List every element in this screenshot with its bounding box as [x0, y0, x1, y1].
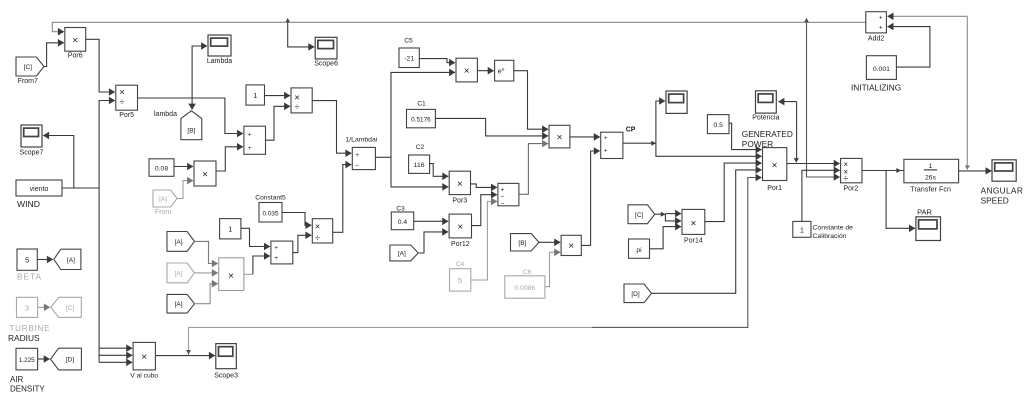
svg-text:Calibración: Calibración	[813, 233, 847, 240]
svg-text:+: +	[604, 135, 608, 142]
wire: Por14 out to Por1 input 3	[705, 163, 762, 222]
product Por1	[763, 148, 787, 192]
wire: pi to Por14 input 3	[650, 227, 682, 249]
junction arrow on Por1 output (Potencia branch)	[794, 158, 799, 163]
svg-text:Por14: Por14	[684, 238, 703, 245]
math function e^u	[495, 60, 514, 81]
svg-text:Lambda: Lambda	[207, 58, 232, 65]
svg-text:÷: ÷	[843, 174, 848, 184]
svg-text:C3: C3	[396, 206, 405, 213]
sum bracket (C2/Li - C3b - C4)	[498, 183, 519, 207]
svg-text:Potencia: Potencia	[752, 115, 779, 122]
svg-text:×: ×	[457, 222, 463, 233]
wire: omega feedback to Add2 input 1	[888, 15, 968, 17]
divide (1/(lambda+0.08b))	[291, 88, 312, 113]
constant 0.5176 (C1)	[407, 109, 436, 127]
svg-text:26s: 26s	[925, 175, 937, 182]
svg-text:Constant5: Constant5	[255, 195, 286, 202]
svg-text:÷: ÷	[295, 102, 300, 112]
svg-text:[A]: [A]	[398, 250, 406, 257]
wire: Por5 output to sum lambda input 1	[138, 98, 243, 134]
svg-text:AIR: AIR	[10, 375, 24, 384]
junction arrow [C] branch	[661, 212, 666, 217]
product lambda*C6	[561, 235, 581, 255]
scope PAR	[916, 217, 941, 241]
goto tag [D] (air density)	[51, 348, 82, 370]
svg-text:0.08: 0.08	[155, 166, 168, 173]
wire: 1.225 to goto [D]	[38, 358, 50, 360]
wire: Por6 output to Por5 input 1	[86, 39, 115, 92]
constant viento	[16, 180, 62, 196]
junction arrow on Scope3 wire (v cubed branch)	[186, 350, 191, 355]
svg-text:Add2: Add2	[868, 36, 884, 43]
wire: [C] to Por14 input 1	[665, 213, 681, 215]
goto tag [A] (beta)	[54, 249, 81, 269]
svg-text:PAR: PAR	[917, 208, 932, 217]
scope Potencia (flipped)	[752, 91, 779, 122]
constant 1.225 (air density)	[16, 348, 38, 370]
svg-text:×: ×	[568, 241, 574, 252]
wire: CP branch up to scope	[656, 101, 665, 143]
svg-text:[A]: [A]	[175, 301, 183, 308]
svg-text:viento: viento	[30, 186, 49, 193]
constant 5 (C4, grey)	[450, 269, 471, 291]
constant 3 (radius, grey)	[17, 297, 38, 317]
wire: product out to sum input 2	[216, 147, 243, 171]
svg-text:Por6: Por6	[68, 53, 83, 60]
svg-text:1: 1	[929, 163, 933, 170]
svg-text:÷: ÷	[120, 97, 125, 107]
wire: Por2 out	[862, 170, 904, 172]
junction arrow omega feedback	[965, 165, 970, 170]
wire: C3 to Por12 input 1	[414, 220, 448, 222]
svg-text:−: −	[501, 200, 505, 207]
scope Scope3	[214, 344, 238, 380]
svg-text:1.225: 1.225	[19, 357, 35, 364]
wire: bus branch down to Scope6	[288, 22, 315, 47]
wire: Add2 drop to Por2 divide input	[807, 22, 840, 177]
sum (1 + beta^3)	[271, 241, 293, 264]
wire: Por3 out to bracket sum input 1	[471, 184, 497, 188]
from tag [A] grey (near 0.08)	[153, 190, 177, 216]
svg-text:0.001: 0.001	[873, 66, 890, 73]
wire: Potencia branch vertical	[796, 102, 798, 159]
svg-text:pi: pi	[636, 247, 642, 254]
svg-text:RADIUS: RADIUS	[8, 333, 40, 343]
sum 1/Lambdai	[352, 147, 375, 169]
constant 0.035	[259, 203, 282, 223]
svg-text:×: ×	[72, 36, 78, 47]
wire: 0.5 to Por1 input 1	[729, 123, 762, 149]
svg-text:3: 3	[25, 304, 29, 313]
wire: CP to Por1 input 2	[656, 143, 762, 156]
wire: v cubed bus to Por1 input 5	[592, 178, 762, 328]
svg-text:Por3: Por3	[452, 198, 467, 205]
svg-text:WIND: WIND	[17, 199, 40, 209]
svg-text:CP: CP	[626, 127, 636, 134]
product Por12	[449, 214, 471, 248]
product Cp terms	[549, 125, 570, 148]
product Por2 (x x /)	[841, 158, 862, 192]
wire: 1 to sum (1+b3) input 1	[241, 228, 270, 246]
svg-text:From: From	[155, 209, 172, 216]
constant 116 (C2)	[409, 155, 430, 173]
svg-text:C5: C5	[404, 38, 413, 45]
svg-text:[D]: [D]	[631, 291, 640, 298]
svg-text:Por12: Por12	[451, 241, 470, 248]
svg-text:Scope7: Scope7	[20, 150, 44, 157]
wire: divide out to 1/Lambdai sum + input	[312, 101, 351, 154]
svg-text:Transfer Fcn: Transfer Fcn	[910, 187, 951, 194]
wire: sum out to divide input 2	[266, 106, 291, 140]
goto tag [B] (lambda)	[181, 111, 202, 140]
constant -21 (C5)	[399, 48, 419, 68]
wire: 0.08 to product	[174, 166, 193, 168]
svg-text:5: 5	[458, 276, 462, 285]
wire: e^u out to Cp product input 1	[514, 71, 548, 130]
svg-text:+: +	[248, 145, 252, 152]
svg-text:Scope6: Scope6	[314, 61, 338, 68]
wire: viento bus up to Por5 input 2	[99, 101, 115, 189]
constant 0.001	[866, 56, 896, 80]
wire: bus to V al cubo input 1	[99, 347, 132, 349]
arrow into Angular Speed scope	[986, 167, 993, 174]
scope Scope7 (flipped)	[20, 125, 44, 157]
wire: [A]3 to beta-cube product input 3	[195, 284, 218, 304]
svg-text:+: +	[879, 14, 883, 21]
svg-text:÷: ÷	[315, 233, 320, 243]
junction tick at Por2 branch on bus	[804, 18, 809, 22]
product (0.08*beta)	[194, 161, 216, 186]
from tag [C] #2	[628, 205, 655, 224]
wire: [C] branch to Por14 input 2	[665, 214, 681, 221]
divide Por5	[116, 85, 138, 119]
wire: sum (1+b3) to divide2 bottom input	[293, 235, 312, 252]
svg-text:[C]: [C]	[66, 305, 75, 312]
constant 5 (beta)	[17, 249, 37, 270]
svg-text:[C]: [C]	[635, 212, 644, 219]
svg-text:[A]: [A]	[159, 196, 167, 203]
constant 1 (lower)	[220, 219, 241, 239]
constant 1 (Constante de Calibracion)	[793, 221, 811, 237]
wire: divide2 out to 1/Lambdai minus input	[333, 165, 352, 233]
svg-text:Constante de: Constante de	[813, 225, 854, 232]
wire: 1 to Por2 input 2	[802, 170, 840, 221]
svg-text:116: 116	[414, 162, 425, 169]
svg-text:+: +	[274, 244, 278, 251]
svg-text:×: ×	[141, 352, 147, 363]
constant 0.0086 (C6, grey)	[505, 276, 545, 298]
svg-text:0.5176: 0.5176	[411, 116, 431, 123]
constant pi	[629, 239, 650, 258]
wire: lambda-C6 out to CP sum input 2	[581, 151, 599, 245]
wire: branch to Potencia scope (flipped input)	[779, 101, 797, 103]
svg-text:ANGULAR: ANGULAR	[981, 186, 1024, 196]
svg-text:+: +	[274, 255, 278, 262]
product Por6	[65, 28, 86, 60]
svg-text:×: ×	[202, 170, 208, 181]
svg-text:×: ×	[464, 66, 470, 77]
wire: beta-cube out to sum (1+b3) input 2	[253, 256, 270, 274]
svg-text:×: ×	[772, 161, 778, 172]
wire: lambda branch to Lambda scope	[192, 46, 207, 98]
svg-text:Por5: Por5	[119, 112, 134, 119]
wire: From7 to Por6 input 2	[44, 43, 64, 67]
svg-text:Por2: Por2	[844, 186, 859, 193]
wire: -21 to product	[419, 59, 455, 63]
svg-text:C4: C4	[456, 261, 465, 268]
svg-text:+: +	[879, 25, 883, 32]
svg-text:From7: From7	[18, 78, 38, 85]
svg-text:GENERATED: GENERATED	[742, 129, 793, 139]
constant 1 (upper)	[246, 85, 265, 105]
from tag [A] #1	[167, 232, 195, 252]
svg-text:DENSITY: DENSITY	[10, 385, 45, 394]
wire: 1/Lambdai down to Por3 input 2	[391, 157, 448, 187]
wire: C6 to lambda-C6 product input 2 (grey)	[545, 252, 560, 286]
svg-text:1: 1	[253, 91, 257, 100]
svg-text:+: +	[248, 132, 252, 139]
svg-text:[D]: [D]	[66, 357, 75, 364]
svg-text:C6: C6	[523, 269, 532, 276]
svg-text:×: ×	[228, 271, 234, 282]
from tag [A] #3	[167, 294, 195, 313]
svg-text:-21: -21	[404, 56, 414, 63]
svg-text:×: ×	[457, 179, 463, 190]
divide (0.035/(1+b^3))	[312, 219, 332, 244]
sum (lambda + 0.08*beta)	[244, 126, 266, 154]
wire: Por12 out to bracket sum input 2	[472, 195, 497, 226]
wire: [B] to lambda-C6 product input 1	[539, 241, 560, 243]
wire: beta-cube out (grey segment)	[244, 273, 253, 275]
svg-text:+: +	[501, 187, 505, 194]
svg-text:lambda: lambda	[154, 111, 177, 118]
transfer function Transfer Fcn 1/26s	[904, 159, 959, 193]
wire: bus to V al cubo input 3	[99, 361, 132, 363]
wire: 1 to divide input 1	[265, 95, 291, 97]
from tag [D]	[624, 284, 652, 303]
scope Lambda	[207, 35, 232, 65]
wire: C1 to Cp product input 2	[435, 118, 548, 135]
wire: [A]4 to Por12 input 2	[418, 232, 448, 253]
scope Scope6	[314, 37, 338, 67]
product Por3	[449, 171, 470, 204]
svg-text:0.5: 0.5	[713, 122, 723, 129]
wire: v cubed long bus (grey part)	[189, 327, 593, 355]
svg-text:[B]: [B]	[187, 128, 195, 135]
sum CP	[601, 132, 623, 158]
scope (CP, unnamed)	[666, 91, 687, 113]
wire: V al cubo output to Scope3	[155, 355, 214, 357]
product Por14	[682, 209, 705, 244]
scope Angular Speed	[992, 160, 1016, 181]
product V al cubo	[130, 342, 158, 379]
svg-text:0.0086: 0.0086	[514, 285, 535, 292]
wire: CP sum out	[623, 142, 656, 144]
wire: viento output to bus junction	[62, 187, 99, 189]
wire: 0.001 to Add2 input 2	[888, 27, 930, 68]
svg-text:Por1: Por1	[767, 185, 782, 192]
wire: Add2 output feedback bus to Por6 input 1	[52, 22, 866, 31]
goto tag [C] (radius, grey)	[51, 297, 82, 317]
wire: 1/Lambdai up to C5 product	[391, 72, 455, 157]
svg-text:[A]: [A]	[175, 239, 183, 246]
wire: viento branch to Scope7 input	[43, 136, 74, 189]
constant 0.5	[707, 115, 729, 134]
wire: omega feedback up (grey)	[966, 16, 968, 166]
from tag [A] grey #2	[167, 263, 195, 283]
wire: Por2 branch down to PAR scope	[886, 171, 915, 229]
svg-text:SPEED: SPEED	[981, 196, 1009, 206]
wire: C4 to bracket sum input 3 (grey)	[471, 201, 497, 280]
junction tick at Scope6 branch on bus	[285, 18, 290, 22]
svg-text:1/Lambdai: 1/Lambdai	[346, 137, 378, 144]
wire: Por1 out to Por2 input 1	[787, 163, 840, 165]
constant 0.4 (C3)	[391, 212, 413, 230]
svg-text:Scope3: Scope3	[214, 373, 238, 380]
sum Add2 (flipped)	[866, 12, 887, 43]
svg-text:TURBINE: TURBINE	[10, 324, 51, 333]
product (C5/Li)	[456, 58, 477, 82]
wire: bracket sum out to Cp product input 3	[519, 144, 548, 195]
wire: 3 to goto [C] (grey)	[38, 306, 50, 308]
from tag [B]	[511, 234, 539, 251]
wire: product to exp	[477, 70, 493, 72]
svg-text:[C]: [C]	[24, 64, 33, 71]
wire: 1/Lambdai out to branch	[375, 156, 391, 158]
wire: 5 to goto [A]	[37, 259, 53, 261]
wire: [A]1 to beta-cube product input 1	[195, 241, 218, 263]
svg-text:1: 1	[800, 227, 804, 234]
wire: C2 to Por3 input 1	[430, 164, 449, 177]
junction arrow CP branch	[651, 141, 656, 146]
wire: [D] to Por1 input 4	[652, 170, 762, 293]
wire: lambda branch down to goto [B]	[191, 98, 193, 110]
svg-text:+: +	[355, 152, 359, 159]
wire: 0.035 to divide2 top input	[282, 213, 311, 226]
svg-text:C1: C1	[417, 101, 426, 108]
svg-text:V al cubo: V al cubo	[130, 373, 158, 380]
svg-text:BETA: BETA	[17, 273, 42, 282]
svg-text:[A]: [A]	[67, 257, 75, 264]
wire: Transfer Fcn out to Angular Speed scope	[959, 170, 991, 172]
svg-text:0.035: 0.035	[263, 210, 279, 217]
wire: grey [A] to beta-cube product input 2	[195, 272, 218, 274]
svg-text:[B]: [B]	[518, 240, 526, 247]
svg-text:[A]: [A]	[175, 270, 183, 277]
junction arrow Por2 output branch	[896, 168, 901, 173]
constant 0.08	[149, 159, 174, 177]
wire: viento bus down to V al cubo	[98, 188, 100, 362]
from tag From7 [C]	[16, 57, 44, 85]
wire: bus to V al cubo input 2	[99, 354, 132, 356]
wire: Cp product out to CP sum input 1	[570, 136, 600, 138]
svg-text:INITIALIZING: INITIALIZING	[851, 83, 901, 93]
wire: [C] out	[655, 213, 666, 215]
svg-text:C2: C2	[416, 144, 425, 151]
from tag [A] #4	[390, 245, 418, 261]
svg-text:+: +	[604, 147, 608, 154]
svg-text:−: −	[355, 163, 359, 170]
svg-text:×: ×	[557, 133, 563, 144]
product beta^3 (grey)	[219, 258, 244, 291]
svg-text:5: 5	[25, 256, 29, 265]
svg-text:0.4: 0.4	[398, 219, 408, 226]
svg-text:×: ×	[315, 222, 321, 233]
wire: grey [A] to product input 2	[177, 181, 193, 199]
svg-text:1: 1	[228, 225, 232, 234]
svg-text:×: ×	[690, 218, 696, 229]
